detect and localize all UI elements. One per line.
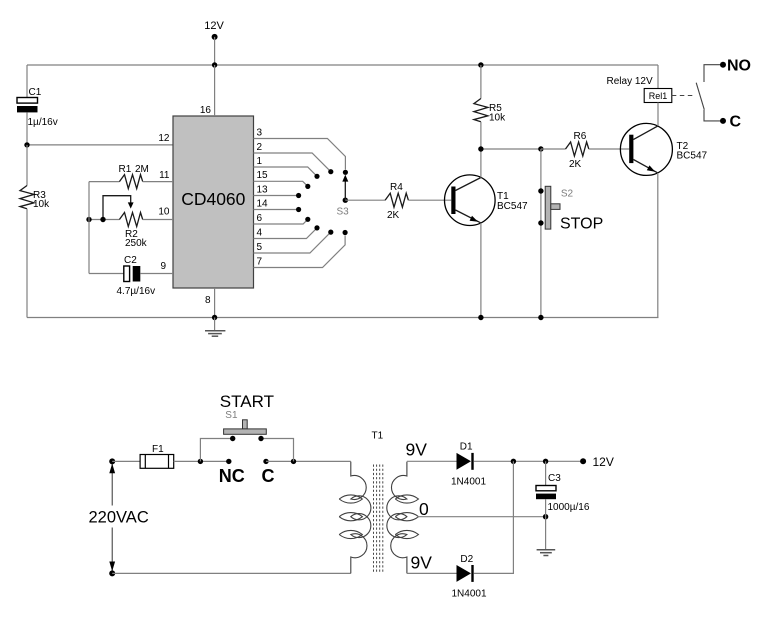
wire ground rail (top circuit bottom) xyxy=(27,317,659,319)
wire C to transformer xyxy=(266,460,351,462)
svg-text:2M: 2M xyxy=(135,164,149,175)
node 12V output xyxy=(580,455,614,469)
node NO xyxy=(704,58,751,83)
wire fuse to NC xyxy=(174,460,229,462)
svg-text:C2: C2 xyxy=(124,255,137,266)
resistor R5 10k xyxy=(474,65,506,149)
ground symbol (C3) xyxy=(537,550,556,556)
wire D1 to 12V out xyxy=(474,460,583,462)
node 12V supply terminal xyxy=(204,20,224,65)
transistor T1 BC547 xyxy=(445,175,529,226)
pin 8 xyxy=(205,288,215,318)
junction D1/D2 xyxy=(511,459,516,464)
wire 0 center tap xyxy=(417,516,546,518)
svg-text:2K: 2K xyxy=(569,159,582,170)
wire pin 5 to S3 contact xyxy=(254,232,331,253)
svg-text:STOP: STOP xyxy=(560,216,603,233)
svg-text:9V: 9V xyxy=(411,553,433,573)
switch S1 START pushbutton xyxy=(200,392,293,461)
wire node pin12 to IC xyxy=(27,144,173,146)
wire base node horizontal (R5/S2/R6) xyxy=(481,148,541,150)
svg-text:S3: S3 xyxy=(337,207,350,218)
switch S2 STOP xyxy=(538,149,603,318)
capacitor C3 1000u/16 xyxy=(536,461,590,516)
capacitor C1 1u/16v xyxy=(17,65,58,145)
transformer T1 core xyxy=(374,465,383,573)
svg-text:NC: NC xyxy=(219,466,245,486)
node C terminal (S1) xyxy=(262,459,275,486)
resistor R6 2K xyxy=(541,131,629,170)
svg-text:12V: 12V xyxy=(593,455,614,469)
svg-text:10k: 10k xyxy=(33,199,50,210)
svg-text:9V: 9V xyxy=(406,440,428,460)
svg-text:T1: T1 xyxy=(372,431,384,442)
transformer T1 primary winding xyxy=(339,462,371,574)
wire pin 14 to S3 contact xyxy=(254,198,299,209)
op-amp? no: IC U1 CD4060 xyxy=(173,116,254,288)
junction 12V rail / pin16 xyxy=(212,62,217,67)
junction T1 emitter / ground rail xyxy=(478,315,483,320)
relay contact lever xyxy=(696,83,704,110)
svg-text:1: 1 xyxy=(257,156,263,167)
dimension 220VAC xyxy=(89,464,149,572)
potentiometer R2 250k (pin 10) xyxy=(89,196,173,249)
svg-text:10: 10 xyxy=(158,207,170,218)
svg-text:5: 5 xyxy=(257,242,263,253)
svg-text:250k: 250k xyxy=(125,238,148,249)
svg-text:Rel1: Rel1 xyxy=(649,91,668,101)
switch S3 wiper xyxy=(337,175,350,218)
transformer T1 secondary winding xyxy=(387,462,419,574)
wire secondary top to D1 xyxy=(407,460,457,462)
svg-text:4: 4 xyxy=(257,227,263,238)
svg-text:4.7µ/16v: 4.7µ/16v xyxy=(117,286,156,297)
svg-text:D1: D1 xyxy=(460,442,473,453)
wire T1 emitter to ground rail xyxy=(480,223,482,318)
svg-text:16: 16 xyxy=(200,105,212,116)
svg-text:7: 7 xyxy=(257,256,263,267)
svg-text:8: 8 xyxy=(205,295,211,306)
svg-text:BC547: BC547 xyxy=(497,201,528,212)
svg-text:1µ/16v: 1µ/16v xyxy=(28,117,58,128)
svg-text:NO: NO xyxy=(727,58,751,75)
svg-text:R6: R6 xyxy=(574,131,587,142)
wire pin 1 to S3 contact xyxy=(254,156,318,177)
svg-text:220VAC: 220VAC xyxy=(89,509,149,527)
wire D2 up to junction xyxy=(474,461,514,573)
svg-text:15: 15 xyxy=(257,170,269,181)
junction C3 bottom / 0 xyxy=(543,514,548,519)
svg-text:2: 2 xyxy=(257,142,263,153)
svg-text:CD4060: CD4060 xyxy=(181,189,245,209)
junction R2 wiper xyxy=(100,217,105,222)
svg-text:C3: C3 xyxy=(548,473,561,484)
svg-text:9: 9 xyxy=(160,261,166,272)
svg-text:Relay 12V: Relay 12V xyxy=(607,76,653,87)
svg-text:14: 14 xyxy=(257,198,269,209)
wire pin 3 to S3 contact xyxy=(254,127,346,169)
transistor T2 BC547 xyxy=(620,123,707,175)
wire 12V top rail xyxy=(27,64,658,66)
node 220VAC terminal bottom xyxy=(109,570,115,576)
resistor R3 10k xyxy=(20,145,50,318)
capacitor C2 4.7u/16v (pin 9) xyxy=(89,255,173,297)
wire pin 7 to S3 contact xyxy=(254,236,346,268)
svg-text:10k: 10k xyxy=(489,113,506,124)
wire T1 collector xyxy=(480,149,482,178)
svg-text:0: 0 xyxy=(419,499,429,519)
svg-text:C: C xyxy=(730,114,742,131)
svg-text:12: 12 xyxy=(158,133,170,144)
fuse F1 xyxy=(140,444,174,468)
wire mains top xyxy=(112,460,140,462)
ground symbol (pin 8) xyxy=(205,318,225,337)
junction pin8 / ground rail xyxy=(212,315,217,320)
svg-text:12V: 12V xyxy=(204,20,224,32)
relay actuation dashed link xyxy=(672,95,696,97)
svg-text:F1: F1 xyxy=(152,444,164,455)
junction C3 top xyxy=(543,459,548,464)
svg-text:R1: R1 xyxy=(119,164,132,175)
svg-text:C1: C1 xyxy=(29,87,42,98)
relay coil Rel1 xyxy=(607,65,672,126)
svg-text:13: 13 xyxy=(257,184,269,195)
wire C3 to ground xyxy=(545,517,547,550)
junction S2 / ground rail xyxy=(538,315,543,320)
svg-text:S2: S2 xyxy=(561,189,574,200)
diode D1 1N4001 xyxy=(451,442,486,488)
resistor R1 2M (pin 11) xyxy=(89,164,173,189)
junction S2 / node xyxy=(538,146,543,151)
resistor R4 2K xyxy=(385,182,451,221)
svg-text:D2: D2 xyxy=(460,554,473,565)
svg-text:1N4001: 1N4001 xyxy=(451,477,486,488)
svg-text:6: 6 xyxy=(257,213,263,224)
svg-text:C: C xyxy=(262,466,275,486)
diode D2 1N4001 xyxy=(452,554,487,600)
node NC terminal xyxy=(219,459,245,486)
wire T2 emitter to ground rail xyxy=(657,173,659,318)
junction S1 right leg xyxy=(291,459,296,464)
junction S1 left leg xyxy=(198,459,203,464)
wire pin 4 to S3 contact xyxy=(254,227,318,238)
switch S3 contacts xyxy=(296,169,348,235)
node C (relay) xyxy=(704,110,742,131)
wire R1/R2/C2 left vertical xyxy=(88,182,90,274)
svg-text:2K: 2K xyxy=(387,210,400,221)
wire pin 2 to S3 contact xyxy=(254,142,331,172)
wire pin 6 to S3 contact xyxy=(254,213,308,224)
junction left rail / pin12 xyxy=(24,142,29,147)
wire secondary bottom to D2 xyxy=(407,572,457,574)
pin 16 xyxy=(200,65,215,116)
node 220VAC terminal top xyxy=(109,458,115,464)
svg-text:1N4001: 1N4001 xyxy=(452,589,487,600)
svg-text:1000µ/16: 1000µ/16 xyxy=(548,502,590,513)
wire pin 13 to S3 contact xyxy=(254,184,299,195)
junction R5 / T1 collector xyxy=(478,146,483,151)
svg-text:BC547: BC547 xyxy=(677,151,708,162)
junction 12V rail / R5 xyxy=(478,62,483,67)
wire pin 15 to S3 contact xyxy=(254,170,308,186)
wire mains bottom xyxy=(112,572,351,574)
svg-text:11: 11 xyxy=(159,170,170,181)
svg-text:R4: R4 xyxy=(390,182,403,193)
svg-text:3: 3 xyxy=(257,127,263,138)
junction left wire / R2 xyxy=(86,217,91,222)
wire S3 pole to R4 xyxy=(345,199,385,201)
svg-text:S1: S1 xyxy=(225,410,238,421)
svg-text:START: START xyxy=(220,392,274,411)
